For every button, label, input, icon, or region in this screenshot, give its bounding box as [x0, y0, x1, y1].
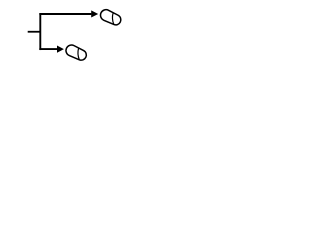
cylinder symbol: top — [100, 10, 120, 25]
wire: bottom branch horizontal — [39, 48, 57, 50]
background — [0, 0, 150, 69]
arrowhead: top branch — [91, 10, 98, 17]
wire: input stub — [28, 31, 41, 33]
wire: top branch horizontal — [39, 13, 91, 15]
arrowhead: bottom branch — [57, 46, 64, 53]
wire: vertical branch — [39, 13, 41, 50]
cylinder symbol: bottom — [66, 45, 86, 60]
